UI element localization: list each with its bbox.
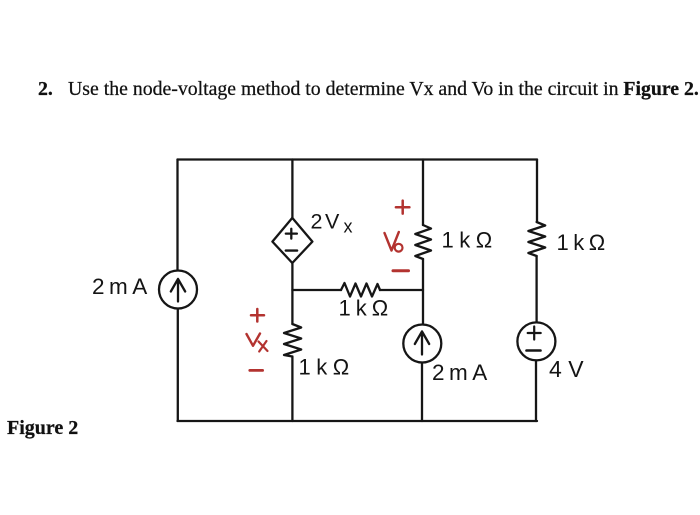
svg-text:1kΩ: 1kΩ xyxy=(442,228,498,253)
annotation: Vx letter xyxy=(247,334,261,346)
wire: right branch upper xyxy=(536,160,538,223)
annotation: Vo plus sign xyxy=(396,201,410,214)
wire: middle horizontal left segment xyxy=(292,289,341,291)
wire: branch C upper xyxy=(422,160,424,226)
svg-text:2V: 2V xyxy=(311,209,342,233)
voltage source V1 (4V) xyxy=(517,322,555,360)
dependent source U1 (diamond 2Vx) xyxy=(272,218,312,263)
current source I2 (2mA, middle-right) xyxy=(403,325,441,363)
wire: branch B middle (diamond to node) xyxy=(291,263,293,324)
svg-text:1kΩ: 1kΩ xyxy=(299,355,355,380)
svg-text:2mA: 2mA xyxy=(92,274,152,299)
figure caption xyxy=(7,418,78,438)
current source I1 (2mA, left) xyxy=(159,271,197,309)
annotation: Vx plus sign xyxy=(251,309,264,322)
wire: right branch lower xyxy=(535,360,537,421)
svg-text:4V: 4V xyxy=(549,356,590,382)
problem statement line xyxy=(38,80,53,100)
wire: branch B upper (above dependent source) xyxy=(291,160,293,218)
resistor R4 (1k, right branch) xyxy=(528,222,545,256)
wire: branch C middle xyxy=(422,259,424,324)
wire: middle horizontal right segment xyxy=(380,289,423,291)
wire: branch B lower to bottom rail xyxy=(291,357,293,422)
wire: branch C lower xyxy=(421,363,423,422)
svg-text:1kΩ: 1kΩ xyxy=(557,230,610,255)
annotation: Vx minus sign xyxy=(250,369,263,372)
wire: left branch lower xyxy=(177,309,179,422)
svg-text:2mA: 2mA xyxy=(432,360,492,385)
svg-text:1kΩ: 1kΩ xyxy=(339,295,394,320)
wire: top rail xyxy=(178,158,538,160)
wire: left branch upper xyxy=(176,160,178,271)
resistor R3 (1k, branch B lower) xyxy=(284,324,301,357)
svg-text:x: x xyxy=(344,217,353,237)
resistor R1 (1k, Vo branch) xyxy=(415,225,431,259)
annotation: Vo minus sign xyxy=(393,269,409,272)
wire: bottom rail xyxy=(178,420,538,422)
annotation: Vx subscript x xyxy=(259,341,268,352)
wire: right branch middle xyxy=(535,256,537,322)
resistor R2 (1k, middle horizontal) xyxy=(341,283,380,297)
annotation: Vo letter xyxy=(385,232,399,251)
annotation: Vo subscript o xyxy=(395,244,403,252)
